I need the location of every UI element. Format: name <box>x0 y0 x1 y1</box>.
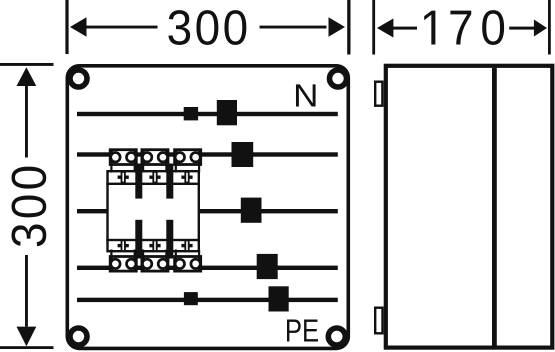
dim shaft right <box>509 27 534 30</box>
extension tick left <box>372 0 375 55</box>
dim text 170 <box>424 10 504 45</box>
large terminal square on line 5 <box>269 286 289 311</box>
dim text 300 vertical <box>11 167 46 247</box>
neck walls bottom block1 <box>110 250 112 259</box>
dim shaft upper <box>25 86 28 158</box>
arrowhead left <box>70 17 87 36</box>
terminal block bottom 3 <box>175 257 201 272</box>
clamp symbol top col1 <box>118 171 129 183</box>
extension tick bottom <box>0 346 54 349</box>
large terminal square on line 3 <box>241 198 262 223</box>
corner hole bottom-left <box>70 328 87 345</box>
body separator bottom <box>106 239 200 241</box>
front view enclosure box <box>67 66 348 349</box>
riser bar bottom left <box>135 220 142 259</box>
arrowhead right <box>534 20 547 37</box>
terminal block top 2 <box>142 150 168 165</box>
clamp symbol top col2 <box>149 171 160 183</box>
clamp symbol bottom col3 <box>181 240 192 252</box>
dim shaft right <box>260 26 327 29</box>
neck walls bottom block3 <box>175 250 177 259</box>
neck walls top block1 <box>110 164 112 173</box>
riser bar bottom right <box>166 220 173 259</box>
terminal block body <box>108 171 199 251</box>
label PE <box>287 319 318 341</box>
wall clip top <box>375 82 382 106</box>
large terminal square on line 2 <box>232 142 254 167</box>
clamp symbol bottom col2 <box>149 240 160 252</box>
busbar L2 <box>77 152 338 156</box>
extension tick right <box>548 0 551 55</box>
large terminal square on line 4 <box>257 254 278 279</box>
dim shaft left <box>86 26 158 29</box>
corner hole bottom-right <box>328 328 345 345</box>
corner hole top-right <box>330 70 347 87</box>
neck walls bottom block2 <box>142 250 144 259</box>
neck walls top block3 <box>175 164 177 173</box>
busbar L4 <box>77 266 338 270</box>
busbar L3 (middle) <box>77 209 338 213</box>
body separator top <box>106 183 200 185</box>
arrowhead right <box>329 17 346 36</box>
extension tick right <box>347 0 350 55</box>
clamp symbol bottom col1 <box>118 240 129 252</box>
label N <box>296 84 316 106</box>
terminal block top 3 <box>175 150 201 165</box>
wall clip bottom <box>375 308 382 334</box>
busbar PE (line 5) <box>77 298 338 302</box>
riser bar top right <box>166 164 173 199</box>
riser bar top left <box>135 164 142 199</box>
extension tick top <box>0 63 54 66</box>
extension tick left <box>65 0 68 54</box>
side view box <box>386 66 553 348</box>
side view divider line <box>492 68 497 346</box>
dim text 300 <box>168 10 246 45</box>
arrowhead left <box>377 19 394 38</box>
terminal block top 1 <box>110 150 136 165</box>
arrowhead down <box>17 327 37 347</box>
dim shaft left <box>393 27 417 30</box>
terminal block bottom 2 <box>142 257 168 272</box>
large terminal square on line 1 <box>217 100 237 125</box>
terminal block bottom 1 <box>110 257 136 272</box>
arrowhead up <box>17 67 37 86</box>
busbar N (line 1) <box>77 112 338 116</box>
neck walls top block2 <box>142 164 144 173</box>
dim shaft lower <box>25 255 28 327</box>
corner hole top-left <box>70 70 87 87</box>
small terminal square on line 1 <box>184 107 198 120</box>
clamp symbol top col3 <box>181 171 192 183</box>
small terminal square on line 5 <box>184 292 198 305</box>
